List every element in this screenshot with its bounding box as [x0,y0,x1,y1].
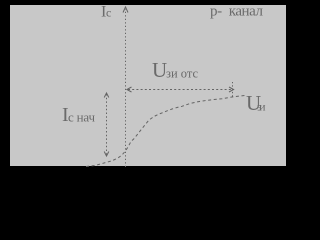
svg-text:с: с [106,6,111,20]
cutoff tick at Uzi ots [232,82,234,97]
svg-text:U: U [152,58,167,82]
Ic axis (vertical dotted) [125,9,127,167]
Ic axis arrowhead [123,7,128,13]
Ic nach dimension (vertical dashed, both arrows) [106,94,108,155]
plot panel background [10,5,286,166]
svg-text:р- канал: р- канал [210,3,264,19]
svg-text:с нач: с нач [68,110,95,125]
svg-text:зи отс: зи отс [166,67,198,81]
U axis / Uzi ots dimension (horizontal dashed, both arrows) [128,89,231,91]
svg-text:зи: зи [257,100,266,114]
transfer curve (dashed) [86,95,245,166]
